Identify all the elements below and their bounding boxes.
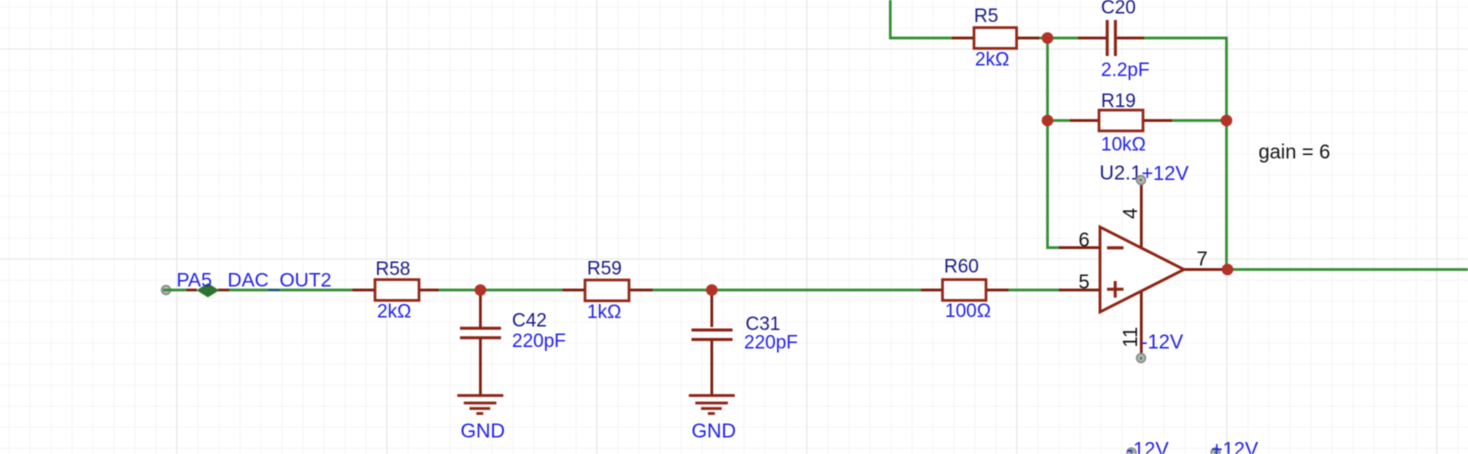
svg-text:10kΩ: 10kΩ — [1101, 135, 1146, 156]
ground GND (C31) — [689, 396, 735, 414]
svg-text:+12V: +12V — [1211, 439, 1259, 454]
svg-text:220pF: 220pF — [744, 333, 798, 354]
wire: R59 left lead — [563, 289, 586, 292]
wire over pin circle — [163, 289, 172, 292]
pin terminal +12V bottom — [1211, 448, 1220, 454]
svg-text:1kΩ: 1kΩ — [587, 302, 621, 323]
svg-text:2kΩ: 2kΩ — [377, 302, 411, 323]
junction output pin7 — [1222, 264, 1234, 276]
wire: R60 to pin5 — [1008, 289, 1060, 292]
wire: R19 right lead — [1143, 119, 1172, 122]
svg-text:R60: R60 — [944, 257, 979, 278]
wire: left vertical junction to pin6 elbow — [1048, 38, 1061, 248]
wire: op-amp pin6 lead — [1059, 246, 1100, 249]
capacitor C31 — [692, 330, 733, 340]
svg-text:C20: C20 — [1101, 0, 1136, 18]
wire: C20 right to right vertical — [1143, 38, 1227, 121]
junction R5-C20 — [1042, 32, 1054, 44]
wire: R58 right lead — [419, 289, 439, 292]
wire: R59 to R60 — [652, 289, 921, 292]
op-amp plus sign — [1107, 281, 1124, 298]
pin terminal +12V — [1137, 176, 1146, 185]
wire: C31 top lead — [710, 290, 713, 327]
junction R19 right — [1221, 115, 1233, 127]
capacitor C42 — [460, 328, 501, 338]
wire: diamond to R58 — [228, 289, 353, 292]
svg-text:220pF: 220pF — [512, 331, 566, 352]
resistor R60 — [943, 280, 987, 301]
svg-text:2.2pF: 2.2pF — [1101, 60, 1150, 81]
pin terminal -12V bottom — [1127, 448, 1136, 454]
wire: port left lead — [187, 289, 198, 292]
svg-text:U2.1: U2.1 — [1100, 163, 1142, 185]
svg-text:100Ω: 100Ω — [945, 301, 991, 322]
svg-text:R59: R59 — [587, 259, 622, 280]
wire: R5 right to junction — [1038, 37, 1078, 40]
op-amp U2.1 — [1100, 227, 1184, 312]
junction C31 — [706, 284, 718, 296]
port diamond DAC_OUT2 — [197, 283, 220, 297]
wire: R60 right lead — [986, 289, 1009, 292]
wire: R58 to R59 — [438, 289, 563, 292]
capacitor C20 — [1107, 20, 1115, 56]
svg-text:5: 5 — [1079, 272, 1090, 294]
wire: R60 left lead — [921, 289, 943, 292]
svg-text:R58: R58 — [376, 259, 411, 280]
wire: R19 right stub — [1172, 119, 1227, 122]
wire: output to right edge — [1228, 268, 1468, 271]
wire: R59 right lead — [630, 289, 653, 292]
junction R19 left — [1042, 115, 1054, 127]
op-amp minus sign — [1107, 246, 1124, 249]
wire: R5 right lead — [1017, 37, 1039, 40]
svg-text:2kΩ: 2kΩ — [975, 50, 1009, 71]
wire: C42 top lead — [479, 290, 482, 327]
resistor R59 — [585, 280, 629, 301]
wire: right vertical to output junction — [1225, 121, 1228, 270]
svg-text:gain = 6: gain = 6 — [1259, 142, 1331, 164]
svg-text:R19: R19 — [1101, 91, 1136, 112]
resistor R5 — [974, 28, 1017, 49]
resistor R19 — [1099, 110, 1143, 131]
svg-text:PA5: PA5 — [177, 270, 213, 292]
wire: port right lead — [218, 289, 229, 292]
wire: C31 bottom lead — [710, 339, 713, 395]
ground GND (C42) — [457, 396, 503, 414]
wire: op-amp pin11 lead — [1140, 292, 1143, 358]
wire: R5 left lead — [952, 37, 974, 40]
wire: C20 left lead — [1078, 37, 1107, 40]
wire: C42 bottom lead — [479, 339, 482, 395]
svg-text:6: 6 — [1079, 230, 1090, 252]
pin PA5 (gray terminal) — [162, 286, 171, 295]
wire: pin to port diamond — [171, 289, 188, 292]
svg-text:7: 7 — [1197, 249, 1208, 271]
wire: C20 right lead — [1117, 37, 1144, 40]
svg-text:-12V: -12V — [1127, 439, 1170, 454]
wire: R19 left stub — [1048, 119, 1071, 122]
wire: op-amp pin7 output lead — [1184, 268, 1222, 271]
svg-text:GND: GND — [692, 421, 736, 443]
svg-text:DAC_OUT2: DAC_OUT2 — [228, 270, 332, 292]
svg-text:11: 11 — [1120, 327, 1142, 348]
svg-text:4: 4 — [1120, 208, 1142, 219]
resistor R58 — [375, 280, 419, 301]
svg-text:R5: R5 — [974, 6, 998, 27]
svg-text:+12V: +12V — [1142, 163, 1190, 185]
svg-text:GND: GND — [461, 421, 505, 443]
wire: op-amp pin4 lead — [1140, 181, 1143, 248]
wire: op-amp pin5 lead — [1059, 289, 1100, 292]
wire: top feedback vertical from edge — [890, 0, 953, 38]
junction C42 — [475, 284, 487, 296]
wire: R58 left lead — [353, 289, 376, 292]
pin terminal -12V — [1137, 354, 1146, 363]
svg-text:-12V: -12V — [1141, 332, 1184, 354]
wire: R19 left lead — [1070, 119, 1099, 122]
svg-text:C42: C42 — [512, 311, 547, 332]
